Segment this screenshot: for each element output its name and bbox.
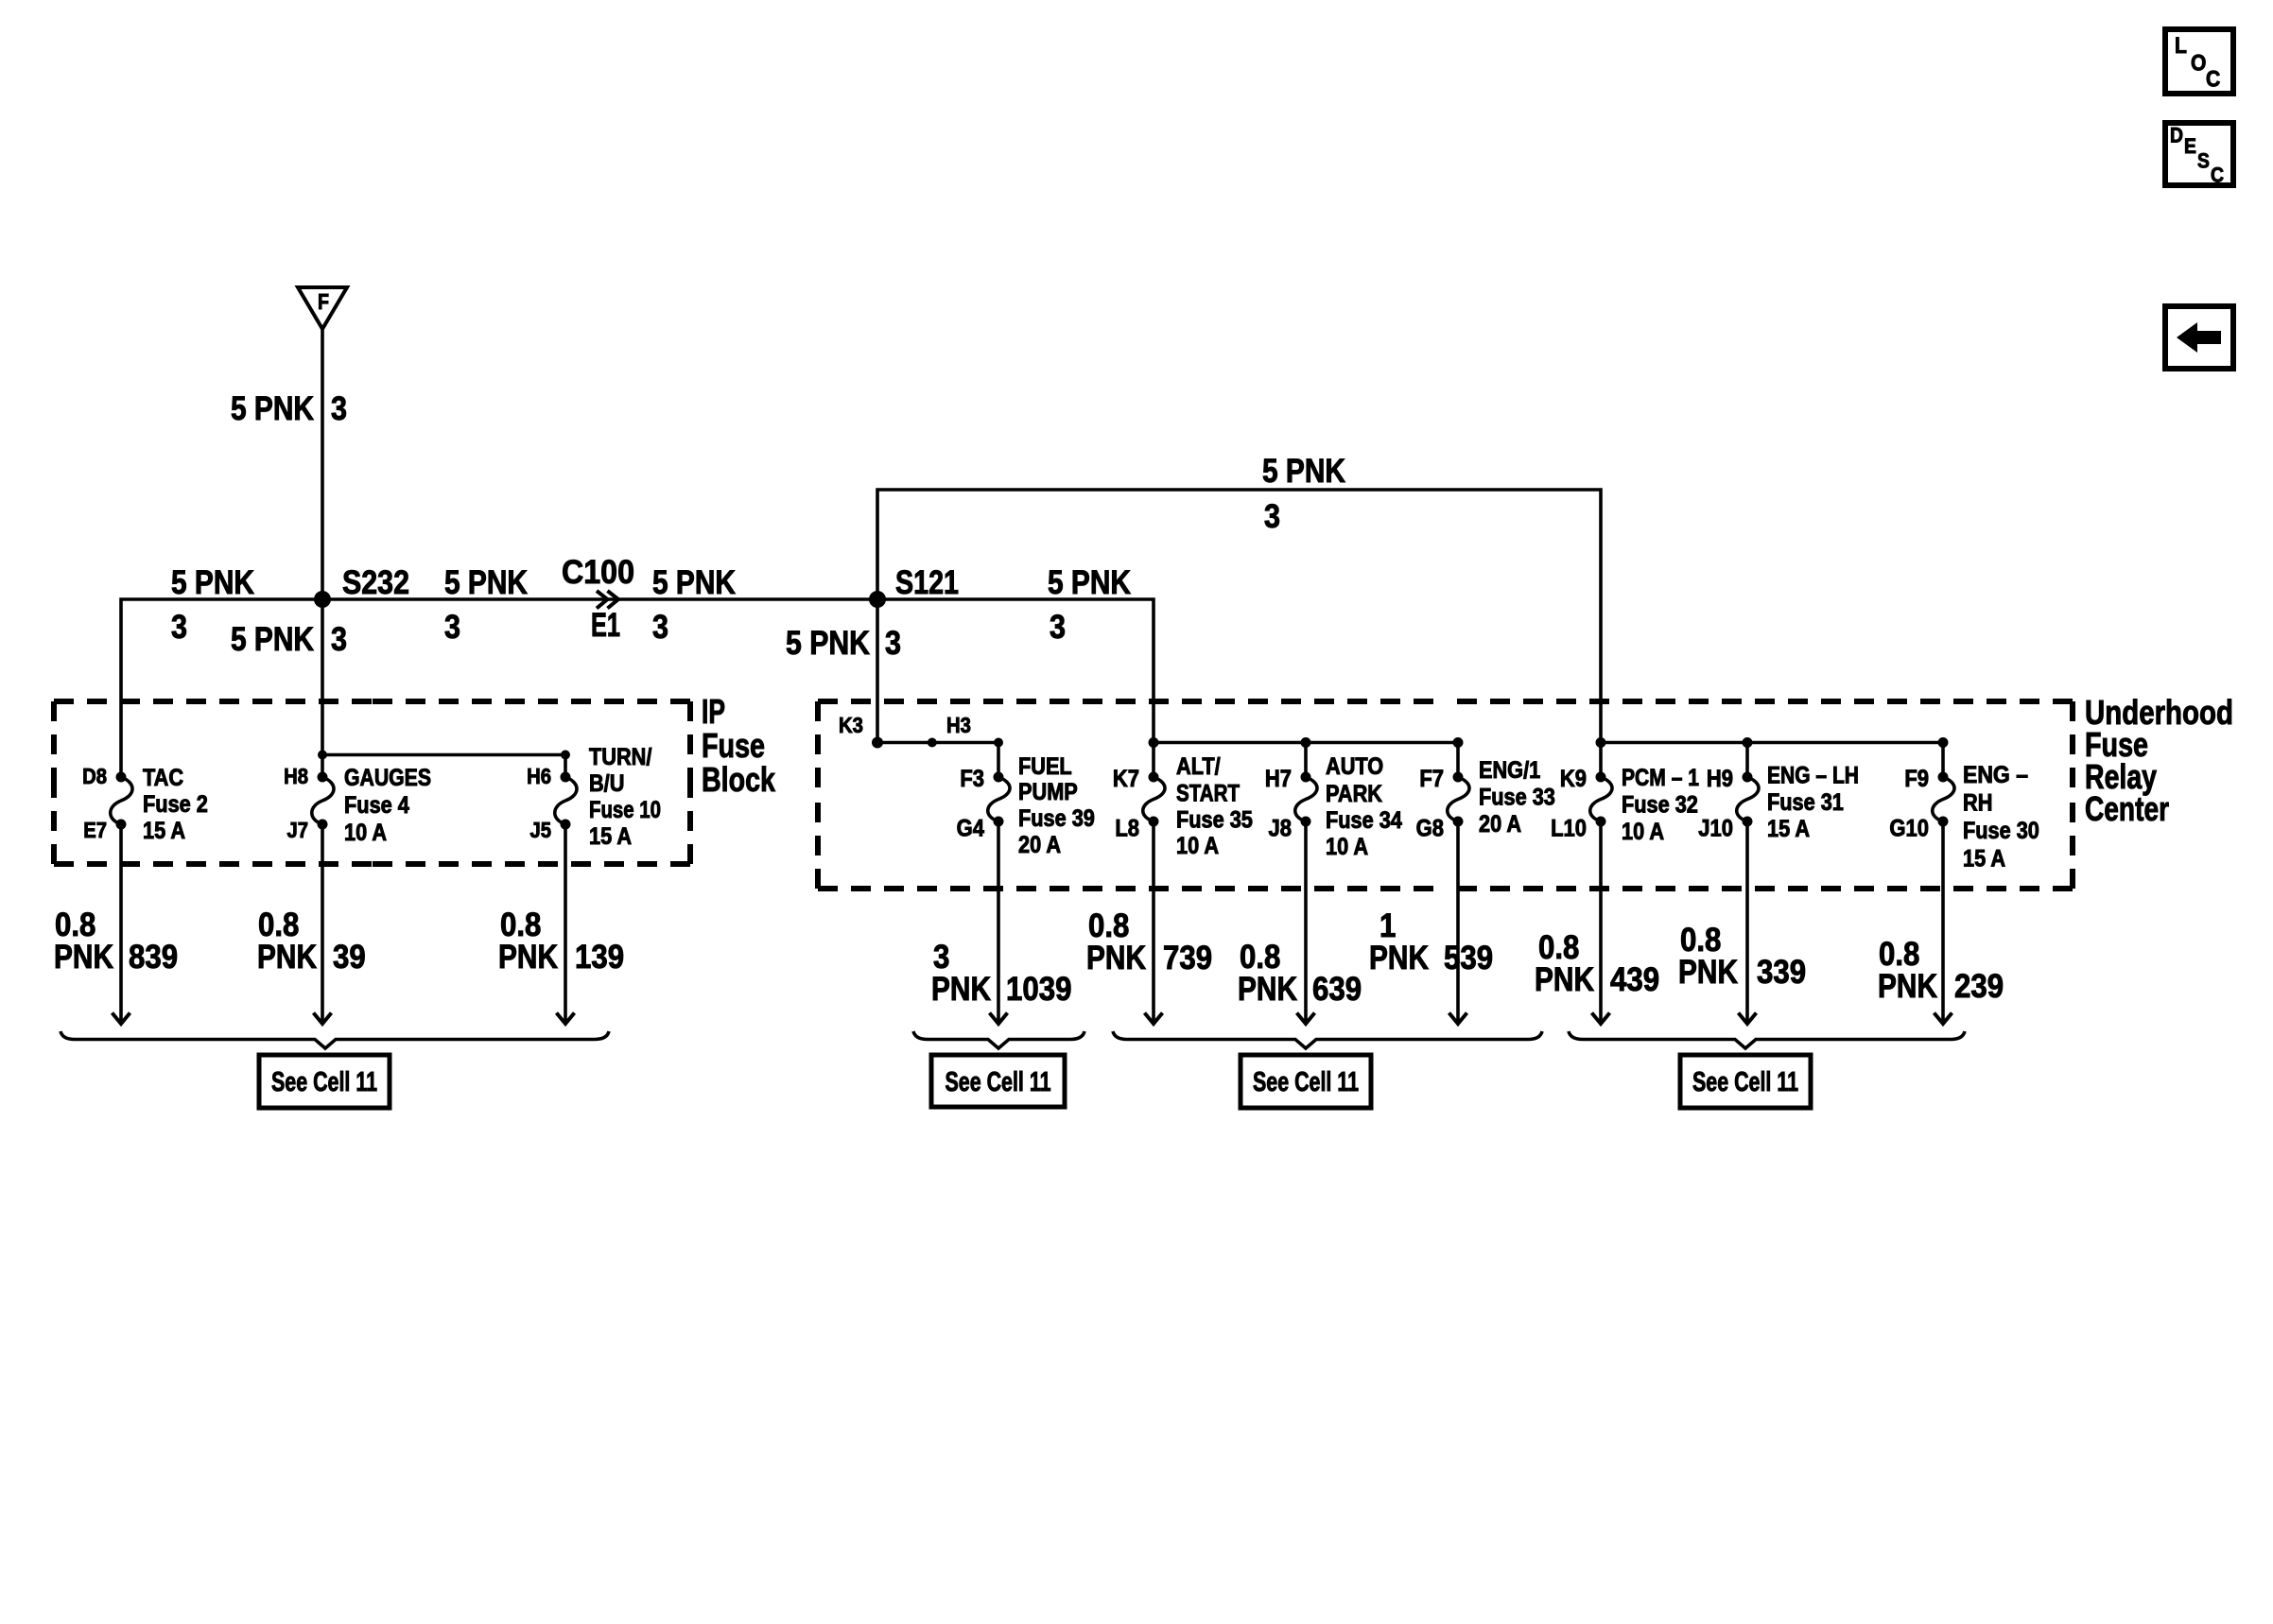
svg-text:3: 3 bbox=[652, 608, 668, 646]
svg-text:839: 839 bbox=[129, 938, 178, 976]
svg-text:PNK: PNK bbox=[498, 938, 558, 976]
svg-text:H9: H9 bbox=[1707, 766, 1733, 792]
svg-text:Fuse 10: Fuse 10 bbox=[589, 798, 661, 823]
svg-text:1039: 1039 bbox=[1006, 970, 1072, 1008]
svg-text:5 PNK: 5 PNK bbox=[444, 563, 528, 601]
svg-text:O: O bbox=[2191, 51, 2206, 77]
svg-text:E7: E7 bbox=[83, 818, 107, 842]
svg-text:RH: RH bbox=[1963, 791, 1992, 817]
svg-text:AUTO: AUTO bbox=[1326, 754, 1383, 780]
svg-text:C100: C100 bbox=[562, 553, 634, 591]
svg-text:F9: F9 bbox=[1904, 766, 1929, 792]
svg-text:Fuse 4: Fuse 4 bbox=[344, 793, 409, 819]
svg-text:See Cell 11: See Cell 11 bbox=[946, 1067, 1051, 1097]
svg-text:739: 739 bbox=[1163, 939, 1212, 976]
svg-text:139: 139 bbox=[575, 938, 624, 976]
svg-text:S: S bbox=[2197, 149, 2210, 173]
svg-text:539: 539 bbox=[1444, 939, 1493, 976]
svg-text:H7: H7 bbox=[1265, 766, 1292, 792]
svg-text:10 A: 10 A bbox=[1326, 835, 1368, 860]
svg-text:239: 239 bbox=[1954, 967, 2004, 1005]
svg-text:B/U: B/U bbox=[589, 771, 624, 797]
svg-text:START: START bbox=[1176, 782, 1240, 807]
svg-text:H8: H8 bbox=[284, 764, 308, 788]
svg-text:G4: G4 bbox=[957, 816, 984, 842]
svg-text:ENG/1: ENG/1 bbox=[1479, 758, 1540, 784]
svg-text:C: C bbox=[2211, 164, 2224, 187]
svg-text:ENG –: ENG – bbox=[1963, 763, 2028, 788]
svg-text:15 A: 15 A bbox=[589, 824, 632, 850]
svg-text:20 A: 20 A bbox=[1479, 812, 1521, 838]
svg-text:C: C bbox=[2206, 67, 2220, 93]
svg-text:TURN/: TURN/ bbox=[589, 745, 652, 770]
svg-text:5 PNK: 5 PNK bbox=[231, 620, 314, 658]
svg-text:3: 3 bbox=[444, 608, 460, 646]
svg-text:F: F bbox=[318, 289, 329, 314]
svg-text:ENG – LH: ENG – LH bbox=[1767, 764, 1859, 789]
svg-text:Fuse 30: Fuse 30 bbox=[1963, 819, 2039, 844]
svg-text:PCM – 1: PCM – 1 bbox=[1622, 766, 1699, 791]
svg-text:15 A: 15 A bbox=[143, 819, 185, 844]
svg-text:Fuse 33: Fuse 33 bbox=[1479, 786, 1555, 811]
svg-text:Fuse: Fuse bbox=[702, 726, 765, 765]
svg-text:J10: J10 bbox=[1698, 816, 1733, 842]
svg-text:3: 3 bbox=[171, 608, 187, 646]
svg-text:5 PNK: 5 PNK bbox=[786, 624, 870, 662]
svg-text:K7: K7 bbox=[1113, 766, 1139, 792]
svg-text:E1: E1 bbox=[591, 606, 620, 644]
svg-text:439: 439 bbox=[1610, 960, 1659, 998]
svg-text:Fuse 31: Fuse 31 bbox=[1767, 790, 1844, 816]
svg-text:15 A: 15 A bbox=[1963, 847, 2005, 872]
svg-text:PNK: PNK bbox=[1878, 967, 1937, 1005]
svg-text:5 PNK: 5 PNK bbox=[171, 563, 254, 601]
svg-text:GAUGES: GAUGES bbox=[344, 766, 431, 791]
svg-text:L: L bbox=[2175, 33, 2187, 59]
svg-text:J7: J7 bbox=[286, 818, 308, 842]
svg-text:5 PNK: 5 PNK bbox=[1048, 563, 1131, 601]
svg-text:3: 3 bbox=[1264, 497, 1280, 535]
svg-text:E: E bbox=[2184, 134, 2196, 158]
svg-text:15 A: 15 A bbox=[1767, 817, 1810, 842]
svg-text:3: 3 bbox=[331, 389, 347, 427]
svg-text:Fuse 2: Fuse 2 bbox=[143, 792, 208, 818]
svg-text:339: 339 bbox=[1757, 953, 1806, 991]
svg-text:Fuse 35: Fuse 35 bbox=[1176, 808, 1253, 834]
svg-text:5 PNK: 5 PNK bbox=[231, 389, 314, 427]
svg-text:See Cell 11: See Cell 11 bbox=[271, 1067, 377, 1097]
svg-text:D8: D8 bbox=[82, 764, 107, 788]
svg-text:39: 39 bbox=[333, 938, 366, 976]
svg-text:PNK: PNK bbox=[54, 938, 113, 976]
svg-text:PARK: PARK bbox=[1326, 782, 1382, 807]
svg-text:3: 3 bbox=[885, 624, 901, 662]
svg-text:K9: K9 bbox=[1560, 766, 1587, 792]
svg-text:10 A: 10 A bbox=[1176, 834, 1219, 859]
svg-text:See Cell 11: See Cell 11 bbox=[1692, 1067, 1798, 1097]
svg-text:TAC: TAC bbox=[143, 766, 183, 791]
svg-text:PNK: PNK bbox=[931, 970, 991, 1008]
svg-text:PNK: PNK bbox=[1086, 939, 1146, 976]
svg-text:F7: F7 bbox=[1419, 766, 1444, 792]
svg-text:10 A: 10 A bbox=[1622, 820, 1664, 845]
svg-text:3: 3 bbox=[331, 620, 347, 658]
svg-text:PNK: PNK bbox=[1678, 953, 1738, 991]
svg-text:PUMP: PUMP bbox=[1018, 780, 1078, 805]
svg-text:S121: S121 bbox=[895, 563, 959, 601]
svg-text:PNK: PNK bbox=[1535, 960, 1594, 998]
svg-text:S232: S232 bbox=[342, 563, 409, 601]
svg-text:PNK: PNK bbox=[1238, 970, 1297, 1008]
svg-text:Fuse 32: Fuse 32 bbox=[1622, 793, 1698, 819]
svg-text:FUEL: FUEL bbox=[1018, 754, 1072, 780]
svg-text:ALT/: ALT/ bbox=[1176, 754, 1221, 780]
svg-text:3: 3 bbox=[1050, 608, 1066, 646]
svg-text:Fuse 34: Fuse 34 bbox=[1326, 808, 1402, 834]
svg-text:G10: G10 bbox=[1889, 816, 1929, 842]
svg-text:F3: F3 bbox=[960, 766, 984, 792]
svg-text:Center: Center bbox=[2085, 789, 2169, 828]
svg-text:PNK: PNK bbox=[257, 938, 317, 976]
svg-text:Block: Block bbox=[702, 760, 776, 799]
svg-text:H3: H3 bbox=[946, 713, 971, 737]
svg-text:H6: H6 bbox=[527, 764, 551, 788]
svg-text:10 A: 10 A bbox=[344, 821, 387, 846]
svg-text:PNK: PNK bbox=[1369, 939, 1429, 976]
svg-text:J5: J5 bbox=[529, 818, 551, 842]
svg-text:Fuse 39: Fuse 39 bbox=[1018, 806, 1095, 832]
svg-text:K3: K3 bbox=[839, 713, 863, 737]
svg-text:See Cell 11: See Cell 11 bbox=[1253, 1067, 1359, 1097]
svg-text:20 A: 20 A bbox=[1018, 833, 1061, 858]
svg-text:L10: L10 bbox=[1551, 816, 1587, 842]
svg-text:5 PNK: 5 PNK bbox=[1262, 452, 1345, 490]
svg-text:5 PNK: 5 PNK bbox=[652, 563, 736, 601]
svg-text:L8: L8 bbox=[1115, 816, 1139, 842]
svg-text:D: D bbox=[2170, 124, 2183, 147]
svg-text:IP: IP bbox=[702, 692, 725, 731]
svg-text:J8: J8 bbox=[1269, 816, 1293, 842]
svg-text:639: 639 bbox=[1312, 970, 1362, 1008]
svg-text:G8: G8 bbox=[1416, 816, 1444, 842]
